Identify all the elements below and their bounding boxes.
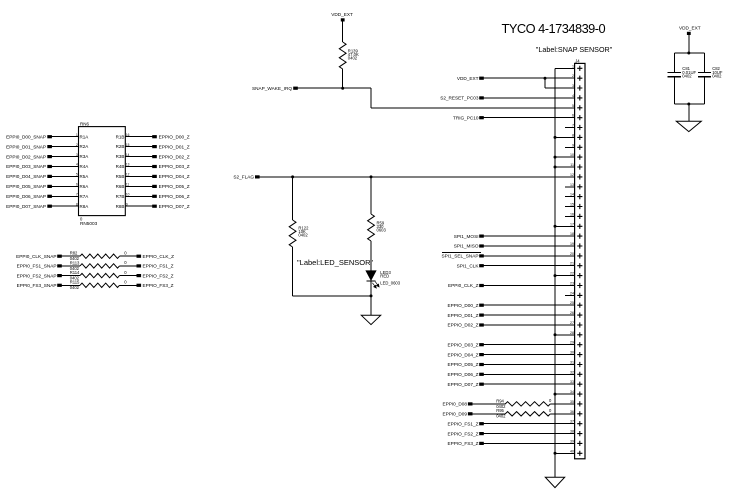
svg-text:29: 29 [570,341,574,345]
svg-text:30: 30 [570,351,574,355]
svg-text:9: 9 [126,202,128,206]
svg-text:EPPIO_D01_Z: EPPIO_D01_Z [159,144,190,149]
svg-text:5: 5 [572,104,574,108]
svg-text:EPPIO_CLK_Z: EPPIO_CLK_Z [143,254,175,259]
svg-text:R82: R82 [70,251,78,256]
svg-text:RN6: RN6 [80,121,89,126]
svg-text:EPPIO_FS2_Z: EPPIO_FS2_Z [447,431,478,436]
svg-text:16: 16 [570,212,574,216]
svg-text:16: 16 [126,133,130,137]
svg-text:22: 22 [570,272,574,276]
svg-text:R95: R95 [496,408,504,413]
svg-text:12: 12 [570,173,574,177]
svg-text:SPI1_MISO: SPI1_MISO [454,244,479,249]
svg-text:EPPI0_D04_SNAP: EPPI0_D04_SNAP [6,174,46,179]
svg-text:13: 13 [570,183,574,187]
svg-text:39: 39 [570,439,574,443]
svg-text:15: 15 [126,143,130,147]
svg-text:SNAP_WAKE_IRQ: SNAP_WAKE_IRQ [252,86,292,91]
svg-text:R8B: R8B [116,204,125,209]
svg-text:EPPI0_D05_SNAP: EPPI0_D05_SNAP [6,184,46,189]
svg-text:EPPIO_FS1_Z: EPPIO_FS1_Z [447,421,478,426]
svg-text:R114: R114 [70,270,80,275]
svg-text:4: 4 [572,94,574,98]
svg-text:18: 18 [570,232,574,236]
svg-text:EPPI0_FS2_SNAP: EPPI0_FS2_SNAP [17,273,57,278]
svg-text:TRIG_PC10: TRIG_PC10 [453,115,479,120]
svg-text:8: 8 [572,133,574,137]
svg-text:EPPIO_FS3_Z: EPPIO_FS3_Z [143,283,174,288]
svg-text:R7B: R7B [116,194,125,199]
svg-text:EPPIO_D06_Z: EPPIO_D06_Z [159,194,190,199]
svg-text:TYCO 4-1734839-0: TYCO 4-1734839-0 [502,21,606,36]
svg-text:5: 5 [76,173,78,177]
svg-text:32: 32 [570,370,574,374]
svg-text:20: 20 [570,252,574,256]
svg-text:EPPI0_CLK_Z: EPPI0_CLK_Z [448,283,479,288]
svg-text:9: 9 [572,143,574,147]
svg-text:R3A: R3A [80,154,89,159]
svg-text:R1B: R1B [116,134,125,139]
svg-text:36: 36 [570,410,574,414]
svg-text:15: 15 [570,203,574,207]
svg-text:R4B: R4B [116,164,125,169]
svg-text:31: 31 [570,361,574,365]
svg-text:EPPIO_D00_Z: EPPIO_D00_Z [159,134,190,139]
svg-text:40: 40 [570,449,574,453]
svg-text:J4: J4 [575,58,580,63]
svg-text:10: 10 [570,153,574,157]
svg-text:"Label:SNAP SENSOR": "Label:SNAP SENSOR" [536,45,613,54]
svg-text:EPPIO_D03_Z: EPPIO_D03_Z [447,342,478,347]
svg-text:R2B: R2B [116,144,125,149]
svg-text:27: 27 [570,321,574,325]
svg-text:EPPIO_D07_Z: EPPIO_D07_Z [447,382,478,387]
svg-text:12: 12 [126,173,130,177]
svg-text:"Label:LED_SENSOR": "Label:LED_SENSOR" [297,258,374,267]
svg-text:S2_RESET_PC03: S2_RESET_PC03 [440,96,479,101]
svg-text:EPPI0_D01_SNAP: EPPI0_D01_SNAP [6,144,46,149]
svg-text:R94: R94 [496,398,504,403]
svg-text:EPPI0_FS1_SNAP: EPPI0_FS1_SNAP [17,264,57,269]
svg-text:6: 6 [572,114,574,118]
svg-text:EPPI0_D08: EPPI0_D08 [443,402,468,407]
svg-text:1: 1 [76,133,78,137]
svg-text:EPPI0_CLK_SNAP: EPPI0_CLK_SNAP [16,254,56,259]
svg-text:SPI1_CLK: SPI1_CLK [457,263,480,268]
svg-text:EPPIO_D01_Z: EPPIO_D01_Z [447,313,478,318]
svg-text:SPI1_MOSI: SPI1_MOSI [454,234,479,239]
svg-text:EPPIO_D02_Z: EPPIO_D02_Z [447,323,478,328]
svg-text:VDD_EXT: VDD_EXT [679,25,701,30]
svg-text:LED_0603: LED_0603 [380,280,400,285]
svg-text:11: 11 [126,183,130,187]
svg-text:0402: 0402 [496,414,506,419]
svg-text:R8A: R8A [80,204,89,209]
svg-text:6: 6 [76,183,78,187]
svg-text:0402: 0402 [348,56,358,61]
svg-text:EPPIO_D07_Z: EPPIO_D07_Z [159,204,190,209]
svg-text:7: 7 [572,124,574,128]
svg-text:R1A: R1A [80,134,89,139]
svg-text:S2_FLAG: S2_FLAG [233,175,254,180]
svg-text:38: 38 [570,430,574,434]
svg-text:17: 17 [570,222,574,226]
svg-text:8: 8 [76,202,78,206]
svg-text:25: 25 [570,301,574,305]
svg-text:SPI1_SEL_SNAP: SPI1_SEL_SNAP [441,254,478,259]
svg-text:R6B: R6B [116,184,125,189]
svg-text:EPPI0_D02_SNAP: EPPI0_D02_SNAP [6,154,46,159]
svg-text:RED: RED [380,273,389,278]
svg-text:4: 4 [76,163,78,167]
svg-text:24: 24 [570,291,574,295]
svg-text:34: 34 [570,390,574,394]
svg-text:EPPI0_D06_SNAP: EPPI0_D06_SNAP [6,194,46,199]
svg-text:R113: R113 [70,260,80,265]
svg-text:R5B: R5B [116,174,125,179]
svg-text:26: 26 [570,311,574,315]
svg-text:2: 2 [572,74,574,78]
svg-text:EPPIO_D04_Z: EPPIO_D04_Z [447,352,478,357]
svg-text:R7A: R7A [80,194,89,199]
svg-text:R4A: R4A [80,164,89,169]
svg-text:0603: 0603 [377,228,387,233]
svg-text:0402: 0402 [682,74,692,79]
svg-text:EPPIO_D05_Z: EPPIO_D05_Z [159,184,190,189]
svg-text:R115: R115 [70,280,80,285]
svg-text:EPPIO_FS3_Z: EPPIO_FS3_Z [447,441,478,446]
svg-text:R2A: R2A [80,144,89,149]
svg-text:EPPIO_D02_Z: EPPIO_D02_Z [159,154,190,159]
svg-text:1: 1 [572,64,574,68]
svg-text:19: 19 [570,242,574,246]
svg-text:EPPI0_D00_SNAP: EPPI0_D00_SNAP [6,134,46,139]
svg-text:EPPI0_FS3_SNAP: EPPI0_FS3_SNAP [17,283,57,288]
svg-text:R3B: R3B [116,154,125,159]
svg-text:0402: 0402 [712,74,722,79]
svg-text:EPPI0_D03_SNAP: EPPI0_D03_SNAP [6,164,46,169]
svg-text:37: 37 [570,420,574,424]
svg-text:EPPIO_D03_Z: EPPIO_D03_Z [159,164,190,169]
svg-text:13: 13 [126,163,130,167]
svg-text:33: 33 [570,380,574,384]
svg-text:10: 10 [126,193,130,197]
svg-text:EPPIO_D06_Z: EPPIO_D06_Z [447,372,478,377]
svg-text:EPPIO_FS2_Z: EPPIO_FS2_Z [143,273,174,278]
svg-text:21: 21 [570,262,574,266]
svg-text:VDD_EXT: VDD_EXT [457,76,479,81]
svg-text:RN5003: RN5003 [80,221,98,226]
svg-text:0402: 0402 [298,233,308,238]
svg-text:14: 14 [570,193,574,197]
svg-text:EPPIO_D00_Z: EPPIO_D00_Z [447,303,478,308]
svg-text:EPPIO_FS1_Z: EPPIO_FS1_Z [143,264,174,269]
svg-text:35: 35 [570,400,574,404]
svg-text:23: 23 [570,282,574,286]
svg-text:14: 14 [126,153,130,157]
svg-text:EPPIO_D05_Z: EPPIO_D05_Z [447,362,478,367]
svg-text:2: 2 [76,143,78,147]
svg-text:7: 7 [76,193,78,197]
svg-text:R6A: R6A [80,184,89,189]
svg-text:VDD_EXT: VDD_EXT [331,12,353,17]
svg-text:R5A: R5A [80,174,89,179]
svg-text:EPPI0_D09: EPPI0_D09 [443,412,468,417]
svg-text:28: 28 [570,331,574,335]
svg-text:3: 3 [572,84,574,88]
svg-text:0402: 0402 [70,285,80,290]
svg-text:EPPI0_D07_SNAP: EPPI0_D07_SNAP [6,204,46,209]
svg-text:EPPIO_D04_Z: EPPIO_D04_Z [159,174,190,179]
svg-text:11: 11 [570,163,574,167]
svg-text:3: 3 [76,153,78,157]
